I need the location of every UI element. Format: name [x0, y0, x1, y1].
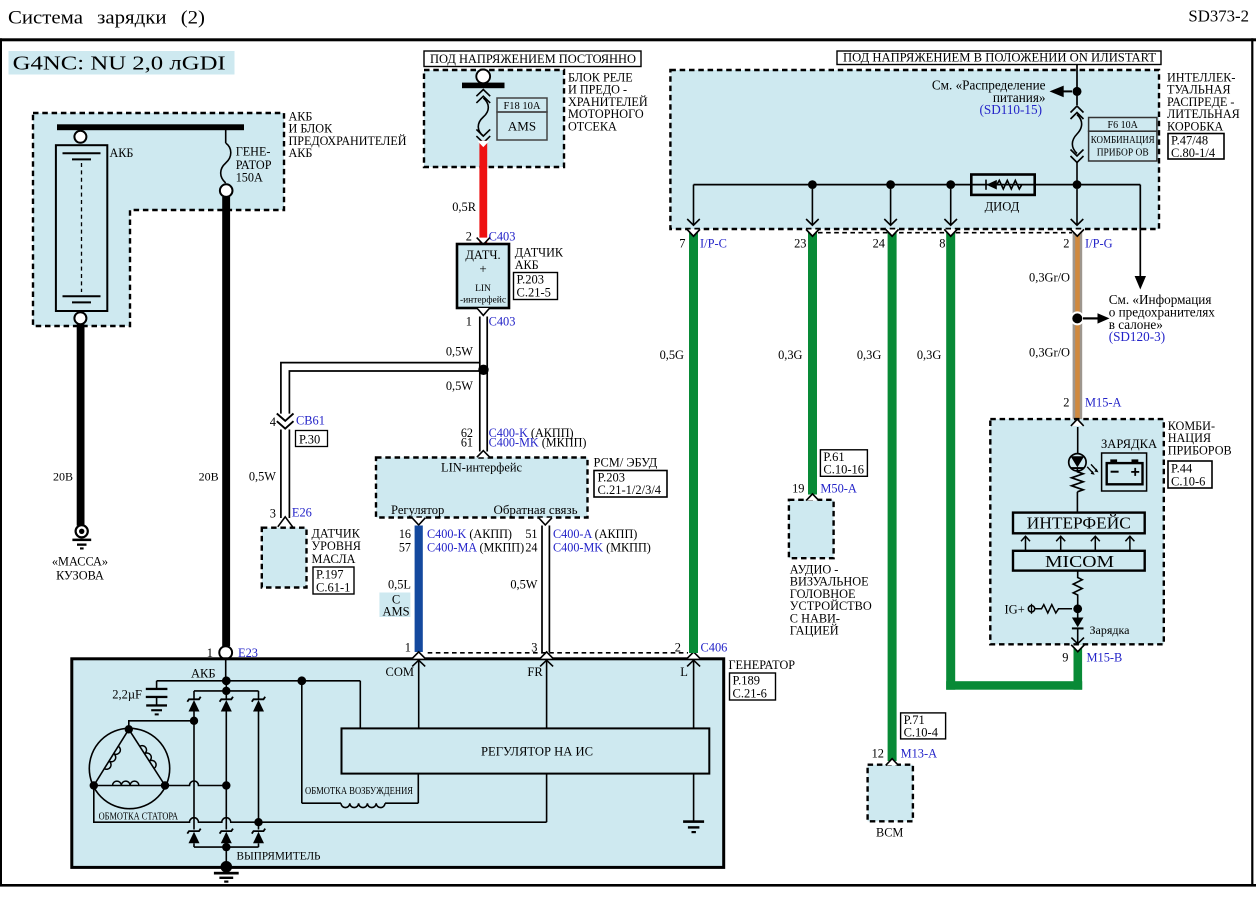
svg-text:61: 61	[461, 436, 473, 450]
exit arrow pin 2 (I/P-G)	[1071, 189, 1084, 225]
svg-text:0,3G: 0,3G	[857, 348, 881, 362]
svg-text:MICOM: MICOM	[1045, 552, 1114, 571]
wire: 0,3G green pin8 to cluster M15-B	[946, 230, 955, 690]
svg-text:C.61-1: C.61-1	[316, 581, 350, 595]
svg-text:РЕГУЛЯТОР НА ИС: РЕГУЛЯТОР НА ИС	[481, 744, 593, 758]
connector chevron into oil sensor	[278, 517, 293, 527]
svg-text:ПРИБОР ОВ: ПРИБОР ОВ	[1097, 148, 1149, 159]
svg-text:C406: C406	[701, 641, 728, 655]
svg-text:F18 10A: F18 10A	[503, 101, 540, 112]
resistor below MICOM	[1073, 571, 1082, 596]
exit arrow pin 7	[687, 185, 700, 226]
battery BAT1	[56, 145, 107, 311]
svg-text:3: 3	[270, 507, 276, 521]
svg-text:C.21-1/2/3/4: C.21-1/2/3/4	[598, 483, 662, 497]
rectifier diode columns	[194, 681, 259, 830]
fuse F6 10A	[1071, 106, 1084, 185]
svg-text:19: 19	[792, 482, 804, 496]
svg-text:ОБМОТКА СТАТОРА: ОБМОТКА СТАТОРА	[99, 812, 179, 823]
wire to LED	[1077, 427, 1079, 454]
svg-text:МАСЛА: МАСЛА	[312, 552, 356, 566]
svg-text:C.80-1/4: C.80-1/4	[1171, 146, 1216, 160]
wire: CB61 to E26 (double line)	[281, 430, 290, 519]
wire: FR below regulator	[546, 774, 548, 823]
svg-text:E26: E26	[292, 506, 312, 520]
svg-text:ДАТЧ.: ДАТЧ.	[465, 248, 500, 262]
svg-text:C400-MK (МКПП): C400-MK (МКПП)	[553, 540, 651, 554]
block: engine compartment relay and fuse box (dashed)	[424, 70, 564, 167]
block: oil level sensor (dashed)	[262, 528, 307, 588]
connector entry L	[687, 652, 700, 659]
diode D1 (top row)	[187, 697, 200, 712]
block: BCM (dashed)	[868, 765, 913, 822]
dashed connector row line	[818, 232, 1072, 234]
connector notch M15-B (below cluster)	[1071, 645, 1084, 652]
block: battery and battery fuse box (dashed L-shape)	[33, 113, 284, 326]
rectifier top bus	[194, 690, 259, 692]
wire: 0,3Gr/O gray-orange pin2 to cluster M15-A	[1073, 230, 1083, 421]
svg-text:ДИОД: ДИОД	[985, 200, 1020, 214]
block: generator (solid box)	[72, 659, 724, 868]
connector chevron into audio unit	[806, 494, 819, 501]
svg-text:24: 24	[873, 237, 885, 251]
wire: battery negative to body ground (20B)	[77, 324, 85, 526]
svg-text:ВСМ: ВСМ	[876, 825, 903, 839]
svg-text:ЗАРЯДКА: ЗАРЯДКА	[1101, 437, 1157, 451]
svg-text:C.10-16: C.10-16	[823, 463, 864, 477]
svg-text:24: 24	[525, 540, 537, 554]
svg-text:P.44: P.44	[1171, 462, 1193, 476]
svg-text:0,3Gr/O: 0,3Gr/O	[1029, 271, 1070, 285]
fuse label box F6 10A / combination instrument	[1089, 118, 1157, 162]
arrow: see power distribution	[1063, 90, 1072, 92]
node: battery negative terminal	[74, 312, 86, 324]
branch to cabin fuse info	[1139, 185, 1141, 277]
svg-text:ИНТЕРФЕЙС: ИНТЕРФЕЙС	[1027, 514, 1131, 533]
exit arrow pin 23	[806, 189, 819, 225]
wire: 0,5G green pin7 to generator L	[689, 230, 698, 654]
regulator box	[342, 728, 710, 773]
svg-text:C400-K (АКПП): C400-K (АКПП)	[427, 527, 512, 541]
label: audio connector M50-A	[820, 450, 867, 477]
svg-text:20В: 20В	[199, 470, 219, 484]
svg-text:ОБМОТКА ВОЗБУЖДЕНИЯ: ОБМОТКА ВОЗБУЖДЕНИЯ	[305, 786, 413, 797]
connector entry FR	[540, 652, 553, 659]
svg-text:2: 2	[466, 230, 472, 244]
connector CB61 (in-line, pin 4)	[277, 414, 294, 421]
svg-text:КОРОБКА: КОРОБКА	[1167, 119, 1223, 133]
svg-text:ПОД НАПРЯЖЕНИЕМ В ПОЛОЖЕНИИ O: ПОД НАПРЯЖЕНИЕМ В ПОЛОЖЕНИИ ON ИЛИSTART	[843, 51, 1156, 65]
svg-text:G4NC: NU 2,0 лGDI: G4NC: NU 2,0 лGDI	[13, 54, 226, 75]
svg-text:2: 2	[675, 641, 681, 655]
svg-text:P.30: P.30	[299, 433, 320, 447]
connector notch into battery sensor	[477, 238, 490, 245]
svg-text:C400-MA (МКПП): C400-MA (МКПП)	[427, 540, 524, 554]
capacitor 2,2uF with ground	[156, 681, 158, 705]
svg-text:M13-A: M13-A	[901, 747, 938, 761]
svg-text:COM: COM	[386, 665, 414, 679]
svg-text:АКБ: АКБ	[110, 146, 134, 160]
wires: COM / FR / L stems to regulator	[419, 660, 694, 728]
diode D2 (top row)	[220, 697, 233, 712]
node: fuse lower terminal	[220, 184, 233, 197]
svg-text:-интерфейс: -интерфейс	[460, 295, 506, 306]
interface box	[1013, 513, 1145, 534]
svg-text:1: 1	[466, 315, 472, 329]
svg-text:АКБ: АКБ	[515, 258, 539, 272]
svg-text:IG+: IG+	[1005, 603, 1025, 617]
svg-text:2: 2	[1063, 237, 1069, 251]
wire: stator right phase to rectifier column 2 (hop over col 1)	[165, 781, 226, 786]
node: connector E23 pin 1	[219, 646, 232, 659]
header: hot in ON or START	[837, 51, 1161, 65]
svg-text:I/P-G: I/P-G	[1085, 237, 1113, 251]
svg-text:C.21-5: C.21-5	[517, 286, 551, 300]
svg-text:ОТСЕКА: ОТСЕКА	[568, 119, 617, 133]
svg-text:КУЗОВА: КУЗОВА	[56, 569, 104, 583]
wire: 0,5W white wire FR (double line)	[542, 526, 549, 653]
svg-text:9: 9	[1062, 651, 1068, 665]
block: PCM LIN-interface (dashed)	[376, 458, 588, 518]
exit arrow pin 24	[884, 189, 897, 225]
wire: feed from top	[1076, 65, 1078, 106]
svg-text:0,5W: 0,5W	[446, 379, 473, 393]
wire: 0,5W from sensor to PCM (double line)	[480, 317, 487, 452]
svg-text:C400-A (АКПП): C400-A (АКПП)	[553, 527, 637, 541]
svg-text:C403: C403	[489, 230, 516, 244]
node: junction excitation branch	[297, 676, 306, 685]
connector chevron below sensor	[477, 308, 490, 315]
svg-text:0,5W: 0,5W	[510, 578, 537, 592]
diode D6 (bottom row)	[252, 829, 265, 844]
svg-text:8: 8	[939, 237, 945, 251]
svg-text:20В: 20В	[53, 470, 73, 484]
stator corner nodes	[125, 725, 133, 733]
svg-text:(SD120-3): (SD120-3)	[1109, 329, 1165, 344]
battery icon	[1102, 453, 1147, 491]
ground: rectifier to chassis	[221, 861, 233, 873]
svg-text:FR: FR	[527, 665, 543, 679]
node: bus junctions	[808, 180, 817, 189]
svg-text:12: 12	[872, 747, 884, 761]
svg-text:0,5W: 0,5W	[446, 345, 473, 359]
node: junction battery bus	[222, 676, 231, 685]
wire: L to internal ground	[693, 774, 695, 821]
connector chevron into BCM	[886, 759, 899, 766]
stator coil bumps	[104, 744, 157, 786]
wire: 0,5L blue wire COM	[415, 526, 423, 653]
svg-text:Система зарядки (2): Система зарядки (2)	[8, 8, 205, 29]
svg-text:150А: 150А	[236, 171, 263, 185]
connector chevrons below LIN box	[412, 518, 425, 525]
MICOM box	[1013, 551, 1145, 571]
svg-text:M15-B: M15-B	[1087, 651, 1123, 665]
diode D3 (top row)	[252, 697, 265, 712]
arrows MICOM to interface	[1021, 536, 1134, 550]
svg-text:0,3G: 0,3G	[917, 348, 941, 362]
node: battery positive terminal	[74, 131, 86, 143]
svg-text:LIN-интерфейс: LIN-интерфейс	[441, 461, 522, 475]
label: BCM connector M13-A	[901, 713, 946, 739]
svg-text:CB61: CB61	[296, 414, 325, 428]
node: junction on sensor wire	[478, 365, 488, 375]
node: supply terminal	[476, 70, 490, 84]
wire: 0,3G green pin23 to audio unit	[808, 230, 817, 495]
svg-text:P.189: P.189	[733, 674, 760, 688]
exit arrow pin 8	[944, 189, 957, 225]
svg-text:51: 51	[525, 527, 537, 541]
svg-text:F6 10A: F6 10A	[1108, 120, 1139, 131]
distribution bus	[694, 184, 1141, 186]
svg-text:ВЫПРЯМИТЕЛЬ: ВЫПРЯМИТЕЛЬ	[237, 848, 321, 862]
svg-text:0,3G: 0,3G	[778, 348, 802, 362]
svg-text:C.10-4: C.10-4	[904, 726, 939, 740]
wire to interface	[1076, 492, 1078, 513]
resistor below LED	[1072, 468, 1084, 492]
svg-text:M15-A: M15-A	[1085, 396, 1122, 410]
ground: body ground «МАССА» КУЗОВА	[52, 525, 108, 582]
svg-text:0,3Gr/O: 0,3Gr/O	[1029, 346, 1070, 360]
svg-text:(SD110-15): (SD110-15)	[979, 102, 1042, 117]
svg-text:M50-A: M50-A	[820, 482, 857, 496]
highlighted C AMS	[379, 593, 410, 618]
svg-text:Обратная связь: Обратная связь	[494, 503, 578, 517]
block: audio visual head unit (dashed)	[789, 500, 834, 558]
svg-text:1: 1	[405, 641, 411, 655]
svg-text:LIN: LIN	[475, 284, 491, 294]
svg-text:SD373-2: SD373-2	[1188, 7, 1249, 26]
svg-text:ПРИБОРОВ: ПРИБОРОВ	[1168, 443, 1232, 457]
wire: 0,3G green pin24 to BCM	[888, 230, 897, 762]
wire to junction	[1077, 596, 1079, 618]
svg-text:7: 7	[679, 237, 685, 251]
svg-text:I/P-C: I/P-C	[700, 237, 727, 251]
stator winding (delta in circle)	[89, 728, 169, 808]
frame bottom rule	[0, 884, 1256, 887]
svg-text:0,5L: 0,5L	[388, 578, 411, 592]
svg-text:C.10-6: C.10-6	[1171, 475, 1205, 489]
component: battery sensor (ДАТЧ)	[457, 244, 509, 308]
diode D4 (bottom row)	[187, 829, 200, 844]
svg-text:2,2µF: 2,2µF	[112, 688, 142, 702]
svg-text:16: 16	[399, 527, 411, 541]
block: instrument cluster (dashed)	[990, 419, 1164, 644]
svg-text:P.197: P.197	[316, 568, 343, 582]
svg-text:0,5W: 0,5W	[249, 470, 276, 484]
wire: stator left phase to rectifier column 3 and FR return (hops over cols 1,2)	[94, 786, 547, 823]
svg-text:ГЕНЕ-: ГЕНЕ-	[236, 144, 271, 158]
node: junction IG+	[1073, 604, 1082, 613]
svg-text:АКБ: АКБ	[289, 146, 313, 160]
svg-text:C.21-6: C.21-6	[733, 687, 767, 701]
frame top rule	[0, 38, 1256, 41]
wire: 0,5R red wire to battery sensor	[479, 141, 487, 244]
dashed connector line C406	[428, 652, 688, 654]
node: junction to power distribution	[1073, 87, 1082, 96]
svg-text:0,5G: 0,5G	[660, 348, 684, 362]
svg-text:23: 23	[794, 237, 806, 251]
fuse label box F18 10A / AMS	[497, 98, 547, 140]
engine code chip G4NC	[9, 51, 235, 75]
svg-text:РСМ/ ЭБУД: РСМ/ ЭБУД	[594, 455, 658, 469]
diode D5 (bottom row)	[220, 829, 233, 844]
svg-text:AMS: AMS	[508, 119, 536, 134]
node: junction on tan wire	[1070, 311, 1084, 325]
frame right border	[1251, 38, 1253, 886]
svg-text:AMS: AMS	[382, 605, 409, 619]
svg-text:ГАЦИЕЙ: ГАЦИЕЙ	[790, 624, 839, 638]
excitation winding	[302, 681, 419, 808]
svg-text:ГЕНЕРАТОР: ГЕНЕРАТОР	[729, 658, 796, 672]
bus bar	[462, 83, 505, 89]
svg-text:АКБ: АКБ	[191, 667, 216, 681]
svg-text:+: +	[479, 261, 486, 276]
svg-text:P.203: P.203	[517, 273, 544, 287]
svg-text:Регулятор: Регулятор	[391, 503, 444, 517]
svg-text:Зарядка: Зарядка	[1090, 623, 1131, 637]
svg-text:КОМБИНАЦИЯ: КОМБИНАЦИЯ	[1091, 135, 1155, 146]
wire: E23 stem and battery bus inside generator	[157, 659, 361, 728]
bus bar	[57, 124, 244, 130]
connector chevron into cluster	[1071, 419, 1084, 426]
wire: stator top phase to rectifier column 1	[129, 721, 194, 730]
svg-text:C403: C403	[489, 315, 516, 329]
wire: generator fuse to generator E23 (20B)	[222, 197, 230, 647]
header: hot at all times	[424, 51, 641, 67]
arrow: to cabin fuse info	[1083, 317, 1098, 319]
frame left border	[0, 38, 2, 886]
ground: generator internal	[683, 820, 704, 823]
svg-text:«МАССА»: «МАССА»	[52, 555, 108, 569]
svg-text:ПОД НАПРЯЖЕНИЕМ ПОСТОЯННО: ПОД НАПРЯЖЕНИЕМ ПОСТОЯННО	[430, 52, 636, 66]
fuse ГЕНЕРАТОР 150A	[221, 130, 231, 183]
rectifier bottom bus	[194, 843, 259, 866]
LED charge warning	[1069, 454, 1099, 475]
wire: branch to oil level sensor (double line)	[281, 363, 480, 414]
diode (in box with resistor)	[971, 175, 1034, 195]
fuse F18 10A AMS	[476, 90, 490, 143]
connector chevron into LIN box	[477, 451, 490, 458]
svg-text:57: 57	[399, 540, 411, 554]
svg-text:0,5R: 0,5R	[452, 200, 476, 214]
svg-text:C400-MK (МКПП): C400-MK (МКПП)	[489, 436, 587, 450]
diode to output	[1072, 618, 1084, 628]
connector entry COM	[412, 652, 425, 659]
svg-text:4: 4	[270, 415, 276, 429]
svg-text:2: 2	[1063, 396, 1069, 410]
block: intelligent junction box (dashed)	[670, 70, 1159, 229]
svg-text:L: L	[680, 665, 688, 679]
